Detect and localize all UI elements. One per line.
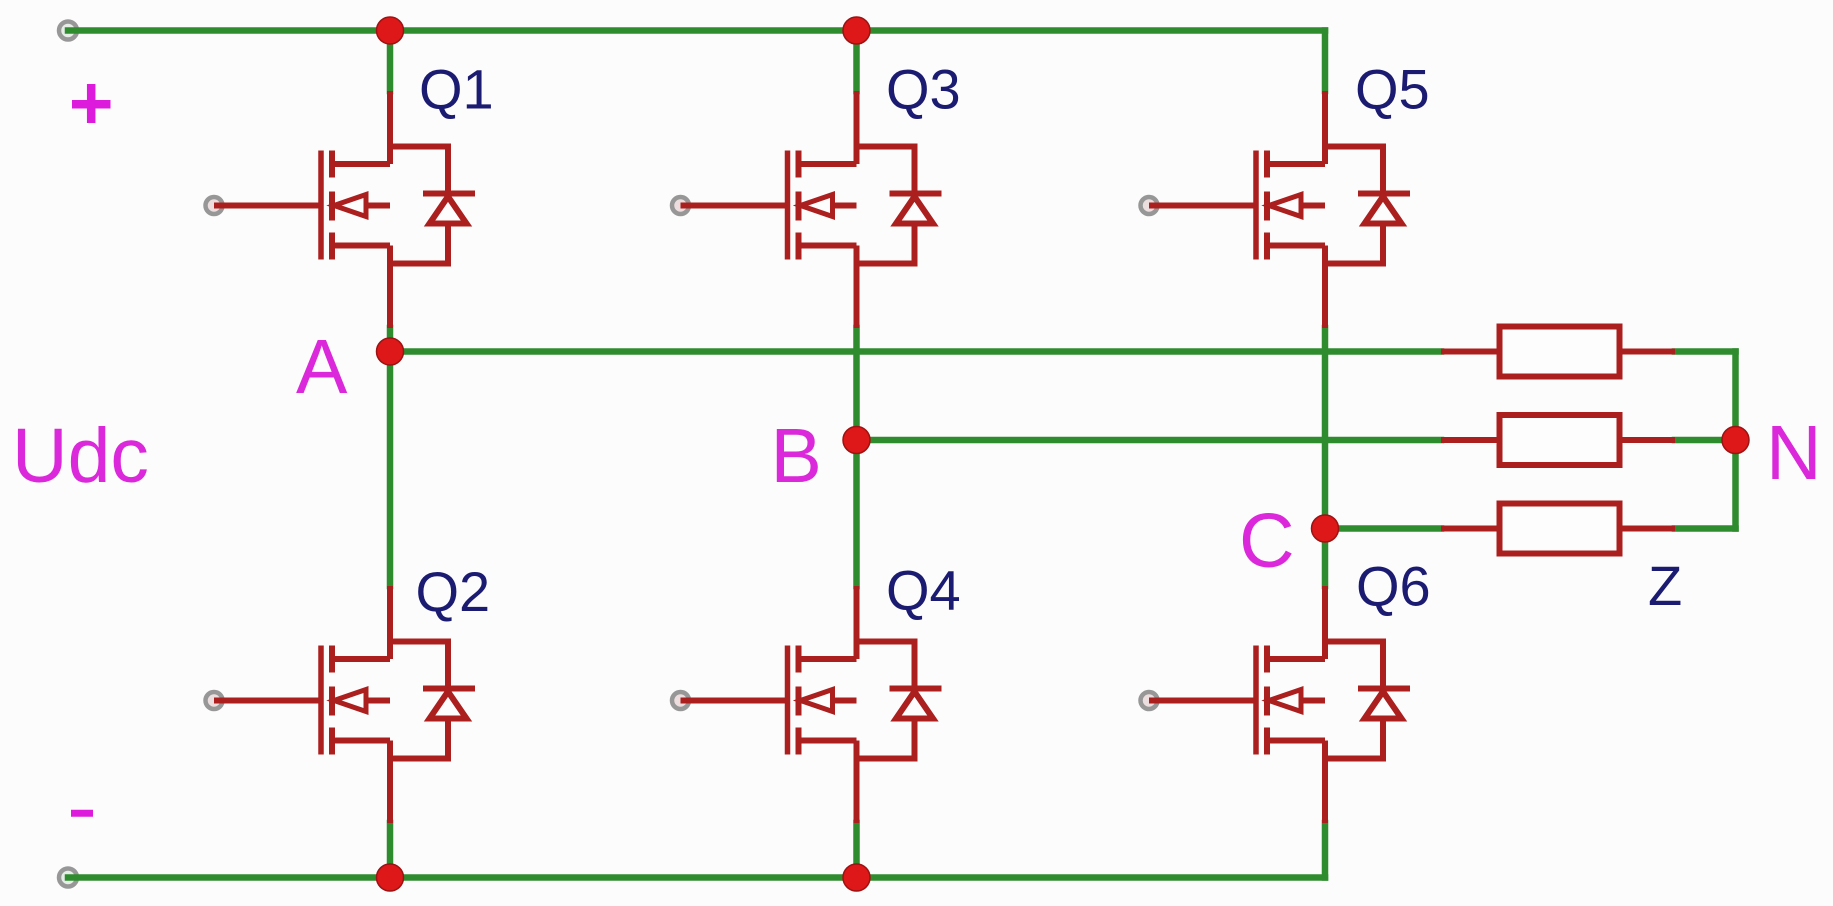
wire: phase-A resistor to node N branch — [1675, 348, 1736, 355]
junction: Q4 leg on DC- bus — [843, 864, 870, 891]
node A junction — [377, 338, 404, 365]
source pin of Q1 — [387, 246, 393, 329]
svg-text:Q4: Q4 — [886, 559, 961, 622]
left pin of load resistor phase B — [1441, 437, 1500, 443]
gate terminal of Q5 — [1141, 197, 1158, 214]
wire: Q2 source to DC- bus — [387, 823, 394, 878]
gate pin of Q6 — [1149, 698, 1256, 704]
transistor Q2 (N-MOSFET with body diode) — [321, 642, 475, 759]
svg-text:Q2: Q2 — [416, 560, 491, 623]
junction: Q3 leg on DC+ bus — [843, 17, 870, 44]
node C junction — [1312, 515, 1339, 542]
svg-text:Z: Z — [1648, 554, 1682, 617]
wire: Q1 source to node A to Q2 drain — [387, 328, 394, 586]
DC- input terminal — [59, 869, 77, 887]
svg-text:B: B — [771, 413, 822, 499]
transistor Q4 (N-MOSFET with body diode) — [788, 642, 942, 759]
wire: neutral vertical joining three phases at N — [1732, 352, 1739, 529]
gate pin of Q5 — [1149, 203, 1256, 209]
gate pin of Q3 — [681, 203, 788, 209]
transistor Q3 (N-MOSFET with body diode) — [788, 147, 942, 264]
source pin of Q4 — [854, 741, 860, 824]
wire: Q6 source to DC- bus — [1322, 823, 1329, 878]
wire: Q3 source to node B to Q4 drain — [853, 328, 860, 586]
drain pin of Q2 — [387, 586, 393, 659]
source pin of Q6 — [1322, 741, 1328, 824]
wire: DC+ bus to Q5 drain — [1322, 31, 1329, 92]
source pin of Q3 — [854, 246, 860, 329]
gate terminal of Q4 — [672, 692, 689, 709]
drain pin of Q5 — [1322, 91, 1328, 164]
right pin of load resistor phase B — [1620, 437, 1676, 443]
svg-text:Udc: Udc — [12, 413, 149, 499]
wire: node A to phase-A resistor — [390, 348, 1441, 355]
wire: node C to phase-C resistor — [1325, 525, 1441, 532]
junction: Q1 leg on DC+ bus — [377, 17, 404, 44]
right pin of load resistor phase C — [1620, 526, 1676, 532]
gate pin of Q4 — [681, 698, 788, 704]
svg-text:Q1: Q1 — [419, 58, 494, 121]
drain pin of Q3 — [854, 91, 860, 164]
svg-text:C: C — [1239, 498, 1295, 584]
gate terminal of Q1 — [206, 197, 223, 214]
source pin of Q5 — [1322, 246, 1328, 329]
wire: phase-C resistor to node N branch — [1675, 525, 1736, 532]
drain pin of Q6 — [1322, 586, 1328, 659]
svg-text:A: A — [296, 324, 348, 410]
wire: node B to phase-B resistor — [857, 437, 1442, 444]
gate terminal of Q2 — [206, 692, 223, 709]
wire: top DC+ bus — [68, 27, 1325, 34]
resistor (load Z, phase B) — [1500, 415, 1620, 465]
wire: DC+ bus to Q3 drain — [853, 31, 860, 92]
wire: bottom DC- bus — [68, 874, 1325, 881]
resistor (load Z, phase C) — [1500, 504, 1620, 554]
left pin of load resistor phase A — [1441, 349, 1500, 355]
resistor (load Z, phase A) — [1500, 327, 1620, 377]
svg-text:Q5: Q5 — [1355, 58, 1430, 121]
junction: Q2 leg on DC- bus — [377, 864, 404, 891]
wire: Q4 source to DC- bus — [853, 823, 860, 878]
svg-text:Q3: Q3 — [886, 58, 961, 121]
gate terminal of Q3 — [672, 197, 689, 214]
svg-text:N: N — [1766, 410, 1822, 496]
polarity mark + — [72, 84, 111, 123]
wire: DC+ bus to Q1 drain — [387, 31, 394, 92]
drain pin of Q1 — [387, 91, 393, 164]
gate terminal of Q6 — [1141, 692, 1158, 709]
node B junction — [843, 427, 870, 454]
transistor Q6 (N-MOSFET with body diode) — [1256, 642, 1410, 759]
transistor Q5 (N-MOSFET with body diode) — [1256, 147, 1410, 264]
svg-text:Q6: Q6 — [1356, 555, 1431, 618]
DC+ input terminal — [59, 22, 77, 40]
left pin of load resistor phase C — [1441, 526, 1500, 532]
transistor Q1 (N-MOSFET with body diode) — [321, 147, 475, 264]
source pin of Q2 — [387, 741, 393, 824]
wire: Q5 source to node C to Q6 drain — [1322, 328, 1329, 586]
gate pin of Q2 — [214, 698, 321, 704]
polarity mark - — [71, 810, 93, 817]
drain pin of Q4 — [854, 586, 860, 659]
wire: phase-B resistor to node N — [1675, 437, 1736, 444]
gate pin of Q1 — [214, 203, 321, 209]
node N junction — [1722, 427, 1749, 454]
right pin of load resistor phase A — [1620, 349, 1676, 355]
